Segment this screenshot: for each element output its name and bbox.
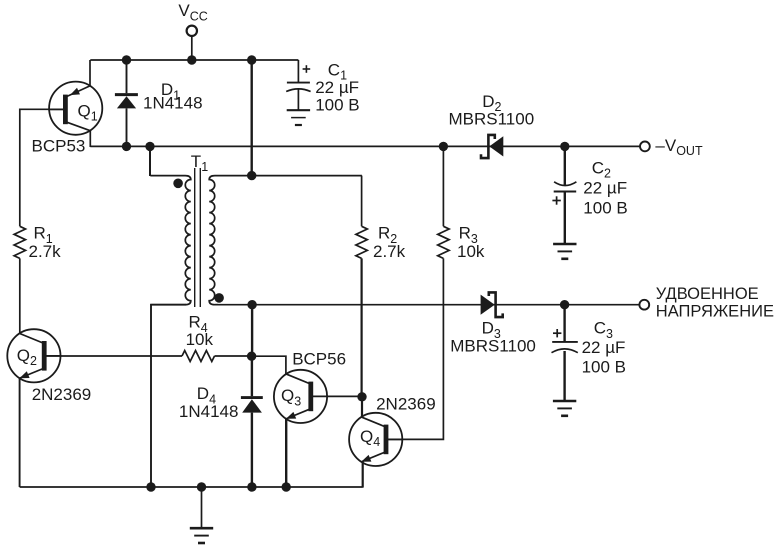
wire -VOUT rail <box>90 145 640 147</box>
output terminal -VOUT <box>640 136 703 158</box>
svg-text:22 µF: 22 µF <box>582 338 626 357</box>
label BCP53 <box>32 136 86 155</box>
svg-text:MBRS1100: MBRS1100 <box>450 337 536 356</box>
svg-text:2N2369: 2N2369 <box>376 395 436 414</box>
svg-text:2.7k: 2.7k <box>29 242 62 261</box>
label C2 value <box>583 159 627 218</box>
svg-text:1N4148: 1N4148 <box>179 402 239 421</box>
ground (C2) <box>553 244 576 259</box>
transformer T1 core <box>195 168 201 307</box>
node VCC rail / secondary feed junction <box>247 55 256 64</box>
wire Q1 base to R1 top <box>20 109 66 226</box>
node ground rail / T1 primary junction <box>146 482 155 491</box>
ground (C1) <box>287 110 310 125</box>
ground (main) <box>190 487 213 543</box>
wire VCC rail to T1 secondary top <box>250 60 252 176</box>
label 2N2369 (Q4) <box>376 395 436 414</box>
node doubled rail / D4 branch junction <box>247 300 256 309</box>
node VCC rail / VCC terminal junction <box>187 55 196 64</box>
svg-text:10k: 10k <box>186 330 214 349</box>
wire Q4 emitter to ground rail <box>362 461 364 487</box>
wire Q1 emitter to VCC rail <box>89 60 91 86</box>
transistor Q3 <box>274 370 328 423</box>
node Q3 base / R2 / Q4 collector junction <box>357 392 366 401</box>
transformer T1 primary phase dot <box>173 179 183 189</box>
node R4 / D4 / T1-bottom junction <box>247 352 256 361</box>
diode D3 <box>481 292 503 317</box>
svg-text:НАПРЯЖЕНИЕ: НАПРЯЖЕНИЕ <box>656 302 774 320</box>
svg-text:УДВОЕННОЕ: УДВОЕННОЕ <box>656 285 759 303</box>
svg-text:22 µF: 22 µF <box>315 78 359 97</box>
svg-text:BCP53: BCP53 <box>32 136 86 155</box>
label 2N2369 (Q2) <box>32 385 92 404</box>
label D1 value <box>143 80 203 112</box>
transistor Q4 <box>349 413 403 466</box>
wire T1 primary bottom to ground rail <box>151 305 186 487</box>
transistor Q2 <box>7 329 61 382</box>
label D2 value <box>449 92 535 129</box>
ground (C3) <box>553 401 576 416</box>
wire T1 secondary top to R2 <box>361 176 363 227</box>
label BCP56 <box>292 349 346 368</box>
svg-text:1N4148: 1N4148 <box>143 93 203 112</box>
svg-text:100 B: 100 B <box>583 199 627 218</box>
capacitor C3 <box>552 305 578 401</box>
svg-text:2.7k: 2.7k <box>373 242 406 261</box>
resistor R1 <box>14 226 25 258</box>
wire R2 bottom to node <box>361 258 363 397</box>
wire node to Q3 collector <box>252 356 286 374</box>
label D4 value <box>179 384 239 421</box>
node -VOUT rail / C2 junction <box>560 142 569 151</box>
label R4 value <box>186 313 214 350</box>
node VCC rail / D1 top junction <box>122 55 131 64</box>
svg-text:2N2369: 2N2369 <box>32 385 92 404</box>
label C1 value <box>315 61 359 115</box>
diode D1 <box>115 60 138 146</box>
resistor R2 <box>356 226 367 258</box>
svg-text:100 B: 100 B <box>315 95 359 114</box>
svg-text:10k: 10k <box>457 242 485 261</box>
svg-text:100 B: 100 B <box>582 358 626 377</box>
wire node to Q4 collector <box>361 397 363 418</box>
wire R1 bottom to Q2 collector <box>19 258 21 333</box>
diode D2 <box>481 135 503 158</box>
power VCC terminal <box>178 1 207 60</box>
output terminal doubled voltage <box>639 285 774 320</box>
wire doubled rail to R4 node <box>251 305 253 357</box>
node T1 primary feed junction <box>145 142 154 151</box>
wire R4 right to node <box>215 355 252 357</box>
node ground rail / ground symbol junction <box>197 482 206 491</box>
transformer T1 secondary winding <box>209 176 362 305</box>
transformer T1 secondary phase dot <box>214 293 224 303</box>
wire Q3 emitter down to ground rail <box>285 419 287 487</box>
svg-text:MBRS1100: MBRS1100 <box>449 110 535 129</box>
label T1 <box>191 152 208 174</box>
capacitor C2 <box>552 146 576 244</box>
wire Q1 collector to -VOUT rail <box>89 131 91 147</box>
transformer T1 primary winding <box>150 176 191 305</box>
node doubled rail / C3 junction <box>560 300 569 309</box>
label R2 value <box>373 224 406 262</box>
transistor Q1 <box>48 82 102 135</box>
resistor R3 <box>438 226 449 258</box>
resistor R4 <box>182 351 215 362</box>
wire Q2 base to R4 <box>44 355 182 357</box>
wire doubled-voltage rail <box>215 304 640 306</box>
label C3 value <box>582 319 626 377</box>
wire T1 primary feed <box>149 146 151 176</box>
wire VCC rail <box>90 59 298 61</box>
svg-text:22 µF: 22 µF <box>583 179 627 198</box>
node -VOUT rail / R3 junction <box>439 142 448 151</box>
diode D4 <box>241 356 263 487</box>
label R1 value <box>29 224 62 262</box>
wire R3 top to -VOUT rail <box>442 146 444 226</box>
capacitor C1 <box>286 60 310 110</box>
node ground rail / D4 junction <box>247 482 256 491</box>
wire Q4 base right to R3 <box>386 258 443 439</box>
node T1 secondary top junction <box>247 171 256 180</box>
node ground rail / Q3 emitter junction <box>282 482 291 491</box>
wire ground rail <box>20 486 363 488</box>
wire Q3 base to node <box>328 395 362 397</box>
svg-text:BCP56: BCP56 <box>292 349 346 368</box>
wire Q2 emitter down to ground rail <box>19 378 21 487</box>
label D3 value <box>450 319 536 356</box>
label R3 value <box>457 224 485 262</box>
node D1 / -VOUT rail junction <box>122 142 131 151</box>
